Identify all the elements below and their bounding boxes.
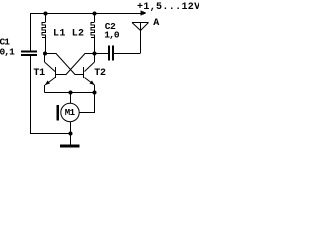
node T2 collector [93, 52, 97, 56]
microphone M1 [57, 93, 80, 134]
svg-text:T2: T2 [94, 68, 106, 79]
capacitor C1 [21, 51, 37, 57]
svg-text:M1: M1 [65, 108, 76, 118]
svg-text:+1,5...12V: +1,5...12V [137, 2, 199, 13]
wire left rail below C1 [31, 56, 71, 134]
node L1 top [44, 12, 48, 16]
node ground [69, 132, 73, 136]
wire top rail [31, 14, 142, 52]
svg-text:A: A [153, 18, 159, 29]
power arrow +1,5...12V [141, 10, 147, 15]
wire T2 emitter to microphone [80, 93, 95, 113]
inductor L1 [42, 13, 46, 53]
transistor T1 [45, 53, 56, 93]
node T2 emitter [93, 91, 97, 95]
node mic top [69, 91, 73, 95]
inductor L2 [91, 13, 95, 53]
svg-text:1,0: 1,0 [104, 30, 120, 41]
wire cross-coupling node B to T1 base [56, 54, 96, 75]
svg-text:T1: T1 [33, 68, 45, 79]
node L2 top [93, 12, 97, 16]
svg-text:L1: L1 [53, 29, 66, 40]
ground [60, 134, 80, 148]
svg-text:L2: L2 [72, 29, 85, 40]
node T1 collector [43, 52, 47, 56]
wire emitters bottom rail [45, 92, 95, 94]
svg-text:0,1: 0,1 [0, 47, 15, 58]
antenna A [132, 23, 149, 54]
wire cross-coupling node A to T2 base [45, 54, 84, 75]
capacitor C2 [95, 46, 140, 61]
transistor T2 [84, 53, 95, 93]
